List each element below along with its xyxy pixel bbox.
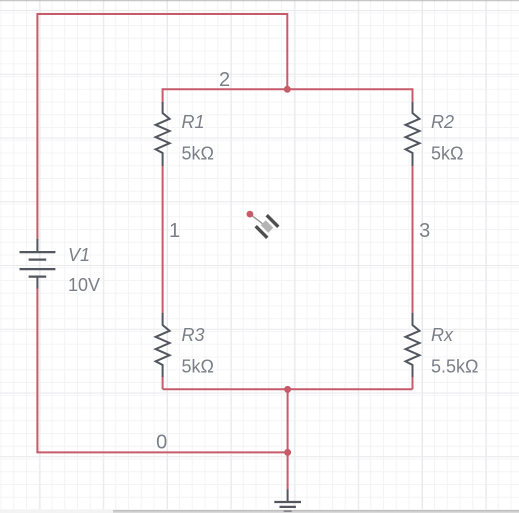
svg-text:5kΩ: 5kΩ xyxy=(182,144,214,164)
svg-text:5.5kΩ: 5.5kΩ xyxy=(431,357,478,377)
wire bottom horizontal (node 0 net) xyxy=(36,451,287,453)
svg-text:5kΩ: 5kΩ xyxy=(182,357,214,377)
junction on bottom rail xyxy=(284,386,291,393)
wire bottom rail (between R3 and Rx) xyxy=(163,388,413,390)
resistor Rx xyxy=(406,313,420,377)
wire left branch top stub above R1 xyxy=(162,88,164,102)
wire top horizontal from V1 to node 2 drop xyxy=(37,13,287,15)
svg-text:1: 1 xyxy=(169,220,180,242)
wire left vertical upper (top corner to V1 plus terminal) xyxy=(36,13,38,239)
wire top rail (node 2 net between R1 and R2) xyxy=(163,88,413,90)
ground xyxy=(274,490,301,512)
svg-text:10V: 10V xyxy=(68,275,100,295)
wire left branch bottom stub below R3 xyxy=(162,377,164,390)
wire right branch bottom stub below Rx xyxy=(412,377,414,390)
bottom scrollbar thumb xyxy=(113,510,519,513)
svg-text:3: 3 xyxy=(419,220,430,242)
bottom scrollbar track xyxy=(0,509,519,513)
wire left vertical lower (V1 minus terminal to bottom corner) xyxy=(36,288,38,452)
svg-text:Rx: Rx xyxy=(431,325,454,345)
wire center drop from bottom rail to node 0 wire xyxy=(287,389,289,452)
resistor R1 xyxy=(156,102,170,166)
junction node 2 xyxy=(284,86,291,93)
cursor probe icon xyxy=(247,211,280,239)
junction node 0 xyxy=(284,449,291,456)
svg-text:2: 2 xyxy=(219,69,230,91)
resistor R3 xyxy=(156,313,170,377)
wire vertical drop into node 2 xyxy=(286,13,288,89)
svg-text:R3: R3 xyxy=(182,325,205,345)
wire node 3 segment between R2 and Rx xyxy=(412,166,414,314)
battery V1 xyxy=(20,239,56,289)
svg-text:0: 0 xyxy=(156,432,167,454)
top toolbar shadow xyxy=(0,0,519,3)
svg-text:5kΩ: 5kΩ xyxy=(431,144,463,164)
svg-text:V1: V1 xyxy=(68,245,90,265)
wire node 1 segment between R1 and R3 xyxy=(162,166,164,314)
wire stub from node 0 down to ground xyxy=(287,452,289,489)
wire right branch top stub above R2 xyxy=(412,88,414,102)
svg-text:R1: R1 xyxy=(182,112,205,132)
resistor R2 xyxy=(406,102,420,166)
svg-text:R2: R2 xyxy=(431,112,454,132)
